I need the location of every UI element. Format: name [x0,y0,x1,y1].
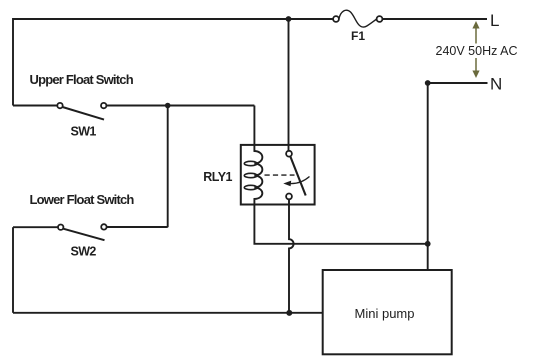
wire bottom rail to pump [13,312,323,314]
node SW1 wire branch [165,103,171,109]
pump box [323,270,452,354]
svg-text:SW1: SW1 [71,125,97,139]
svg-text:SW2: SW2 [71,245,97,259]
voltage arrow 240V 50Hz AC [472,21,479,78]
relay coil [254,145,262,205]
svg-text:240V 50Hz AC: 240V 50Hz AC [436,44,518,58]
node N corner [425,80,431,86]
relay contact lever [290,156,305,195]
svg-text:L: L [490,11,499,30]
node junction top rail to relay contact [286,16,292,22]
wire left rail SW2 down to bottom rail [12,227,14,313]
wire relay contact bottom to bottom rail with hop [289,199,294,312]
wire N rail [428,83,488,270]
svg-text:N: N [490,75,502,94]
node coil-return to N rail [425,241,431,247]
svg-text:Lower Float Switch: Lower Float Switch [30,192,135,207]
relay actuation arrow [290,177,310,184]
node contact wire to bottom rail [286,310,292,316]
wire top rail to relay contact top [288,19,290,151]
relay RLY1 [241,145,315,205]
svg-text:Mini pump: Mini pump [355,306,415,321]
wire top rail right segment [382,18,487,20]
switch SW1 [13,103,254,120]
switch SW2 [13,224,168,240]
relay contact pin top [286,151,292,157]
svg-text:F1: F1 [351,29,365,43]
svg-text:Upper Float Switch: Upper Float Switch [30,72,134,87]
wire SW1 to relay coil top [253,106,255,146]
svg-text:RLY1: RLY1 [203,170,232,184]
relay contact pin bottom [286,194,292,200]
fuse F1 [333,10,382,27]
wire branch from SW1 down to SW2 [167,106,169,228]
wire relay coil bottom return to N rail [254,205,427,244]
relay actuation dashed link [265,174,295,176]
wire top rail left segment (L rail) [13,19,333,106]
